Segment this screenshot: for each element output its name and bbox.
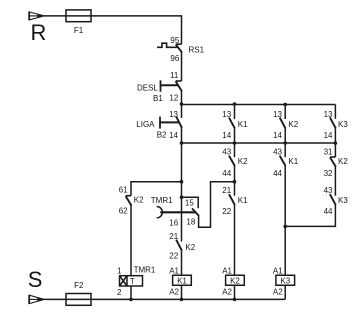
svg-text:A2: A2 (273, 287, 283, 296)
wire RS1 pin 96 to DESL pin 11 (181, 52, 183, 81)
contact K2 61-62 NC (126, 196, 132, 276)
svg-text:R: R (31, 20, 47, 45)
svg-text:A2: A2 (169, 287, 179, 296)
svg-text:K2: K2 (134, 195, 144, 204)
svg-text:LIGA: LIGA (136, 120, 155, 129)
wire LIGA pin 14 down through holding bus to timer area (181, 128, 183, 242)
node junction K2 column / K3 44 wire (283, 225, 287, 229)
svg-text:31: 31 (324, 148, 333, 157)
svg-text:95: 95 (170, 36, 179, 45)
svg-text:96: 96 (170, 54, 179, 63)
node junction bus14 / K1 column (233, 141, 237, 145)
contact K1 43-44 NO (280, 143, 286, 275)
wire K1 coil to bottom bus (181, 285, 183, 299)
fuse F2 (66, 294, 91, 306)
node junction bus14 / K3 column (334, 141, 338, 145)
svg-text:43: 43 (222, 148, 231, 157)
svg-text:K3: K3 (280, 276, 290, 285)
svg-text:A1: A1 (273, 267, 283, 276)
svg-text:43: 43 (324, 186, 333, 195)
node junction bus14 / K2 column (283, 141, 287, 145)
svg-text:RS1: RS1 (189, 46, 205, 55)
svg-text:13: 13 (222, 110, 231, 119)
wire holding bus 14 (182, 142, 336, 144)
node junction main column / K2 61 branch (180, 180, 184, 184)
svg-text:K1: K1 (238, 196, 248, 205)
svg-text:16: 16 (169, 218, 178, 227)
svg-text:F1: F1 (74, 26, 84, 35)
svg-text:44: 44 (273, 169, 282, 178)
pushbutton DESL B1 NC contact (11-12) (161, 80, 182, 91)
svg-text:S: S (28, 267, 43, 292)
svg-text:K2: K2 (185, 243, 195, 252)
pushbutton LIGA B2 NO contact (13-14) (160, 117, 182, 129)
phase R feed arrow (29, 12, 45, 21)
wire bottom bus from fuse F2 to K3 coil column (91, 298, 285, 300)
svg-text:44: 44 (222, 169, 231, 178)
coil K2 (226, 275, 245, 285)
svg-text:B2: B2 (157, 131, 167, 140)
svg-text:32: 32 (324, 169, 333, 178)
svg-text:14: 14 (222, 131, 231, 140)
svg-text:K2: K2 (230, 276, 240, 285)
svg-text:K1: K1 (288, 157, 298, 166)
wire K3 coil to bottom bus (284, 285, 286, 299)
node junction bus12 / K1 column (233, 102, 237, 106)
wire timer 18 output to K1 21 branch (199, 182, 235, 228)
svg-text:18: 18 (186, 217, 195, 226)
contact K2 13-14 NO (280, 105, 286, 144)
svg-text:DESL: DESL (137, 83, 158, 92)
svg-text:A1: A1 (222, 267, 232, 276)
phase S feed arrow (29, 295, 45, 304)
node junction K1 column / timer 18 wire (233, 180, 237, 184)
wire control bus 12 (182, 104, 336, 106)
svg-text:62: 62 (119, 207, 128, 216)
wire branch to K2 61-62 (131, 182, 182, 196)
coil TMR1 timer (120, 276, 143, 286)
svg-text:K2: K2 (338, 157, 348, 166)
svg-text:14: 14 (273, 131, 282, 140)
svg-text:13: 13 (169, 110, 178, 119)
svg-text:14: 14 (169, 131, 178, 140)
svg-text:11: 11 (170, 71, 179, 80)
wire K2 coil to bottom bus (234, 285, 236, 299)
contact K3 43-44 NO (285, 194, 336, 226)
svg-text:K3: K3 (338, 196, 348, 205)
svg-text:44: 44 (324, 207, 333, 216)
svg-text:K1: K1 (238, 120, 248, 129)
svg-text:22: 22 (169, 252, 178, 261)
wire top bus from arrow to fuse F1 (44, 15, 66, 17)
wire DESL pin 12 to LIGA pin 13 (181, 91, 183, 118)
svg-text:22: 22 (222, 207, 231, 216)
contact K1 21-22 NO (229, 194, 235, 275)
node junction bottom bus / K2 coil (233, 298, 237, 302)
node junction bottom bus / K1 coil (180, 298, 184, 302)
svg-text:A2: A2 (222, 287, 232, 296)
svg-text:K2: K2 (288, 120, 298, 129)
contact K3 13-14 NO (330, 105, 336, 144)
wire bottom bus from arrow to fuse F2 (44, 298, 66, 300)
node junction main column / control bus 12 (180, 102, 184, 106)
wire TMR1 coil to bottom bus (130, 286, 132, 299)
node junction main column / bus 14 (180, 141, 184, 145)
svg-text:F2: F2 (74, 281, 84, 290)
timer contact TMR1 (15-16-18) changeover (157, 197, 199, 218)
contact K1 13-14 NO (229, 104, 235, 143)
svg-text:TMR1: TMR1 (151, 196, 173, 205)
svg-text:15: 15 (185, 199, 194, 208)
svg-text:TMR1: TMR1 (134, 265, 156, 274)
contact K2 21-22 NO (176, 240, 182, 276)
node junction bus12 / K2 column (283, 103, 287, 107)
svg-text:13: 13 (273, 110, 282, 119)
coil K1 (173, 275, 192, 285)
contact K2 31-32 NC (330, 143, 336, 196)
node junction bottom bus / TMR1 coil (129, 298, 133, 302)
svg-text:61: 61 (119, 186, 128, 195)
svg-text:A1: A1 (169, 267, 179, 276)
svg-text:43: 43 (273, 148, 282, 157)
contact K2 43-44 NO (229, 143, 235, 196)
svg-text:21: 21 (222, 186, 231, 195)
wire main column top lead to RS1 pin 95 (181, 16, 183, 44)
svg-text:B1: B1 (153, 94, 163, 103)
svg-text:K2: K2 (238, 157, 248, 166)
svg-text:14: 14 (324, 131, 333, 140)
svg-text:K3: K3 (338, 120, 348, 129)
thermal overload contact RS1 (95-96) (157, 43, 182, 52)
svg-text:2: 2 (117, 288, 122, 297)
svg-text:K1: K1 (177, 276, 187, 285)
coil K3 (276, 275, 295, 285)
fuse F1 (66, 10, 91, 22)
svg-text:T: T (130, 277, 135, 286)
svg-text:13: 13 (324, 110, 333, 119)
node junction main column / timer common 15 hook (180, 195, 184, 199)
svg-text:12: 12 (169, 93, 178, 102)
svg-text:1: 1 (117, 266, 122, 275)
svg-text:21: 21 (169, 232, 178, 241)
wire top bus from fuse F1 to main column (91, 15, 182, 17)
